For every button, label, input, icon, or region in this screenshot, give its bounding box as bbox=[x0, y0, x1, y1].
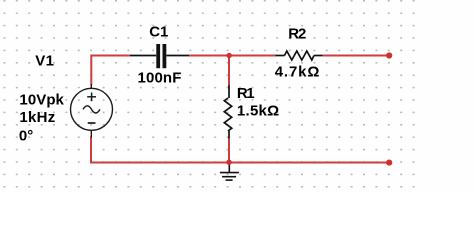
wire C1 to node A bbox=[189, 55, 229, 57]
node B junction bbox=[226, 160, 231, 165]
svg-text:0°: 0° bbox=[19, 127, 33, 144]
node A junction bbox=[227, 53, 232, 58]
ground bbox=[220, 163, 239, 180]
wire R1 to node B bbox=[228, 139, 230, 163]
wire node B to right bottom terminal bbox=[229, 162, 389, 164]
svg-text:1kHz: 1kHz bbox=[19, 109, 55, 126]
wire node A to R2 bbox=[229, 55, 276, 57]
resistor R1 bbox=[224, 85, 231, 139]
svg-text:C1: C1 bbox=[149, 24, 168, 41]
svg-text:1.5kΩ: 1.5kΩ bbox=[237, 103, 279, 120]
terminal dot bottom right bbox=[386, 160, 392, 166]
svg-text:4.7kΩ: 4.7kΩ bbox=[275, 63, 320, 80]
capacitor C1 bbox=[130, 44, 189, 68]
svg-text:V1: V1 bbox=[35, 52, 54, 69]
wire node A down to R1 bbox=[228, 56, 230, 86]
svg-text:R2: R2 bbox=[288, 26, 306, 43]
wire V1 bottom to node B bbox=[91, 137, 229, 163]
resistor R2 bbox=[276, 51, 323, 60]
AC source V1 bbox=[71, 84, 113, 138]
wire V1 top to C1 bbox=[91, 56, 130, 85]
wire R2 to right terminal bbox=[323, 55, 390, 57]
svg-text:R1: R1 bbox=[237, 85, 255, 102]
svg-text:100nF: 100nF bbox=[138, 70, 182, 87]
svg-text:10Vpk: 10Vpk bbox=[19, 91, 64, 108]
terminal dot top right bbox=[386, 52, 392, 58]
